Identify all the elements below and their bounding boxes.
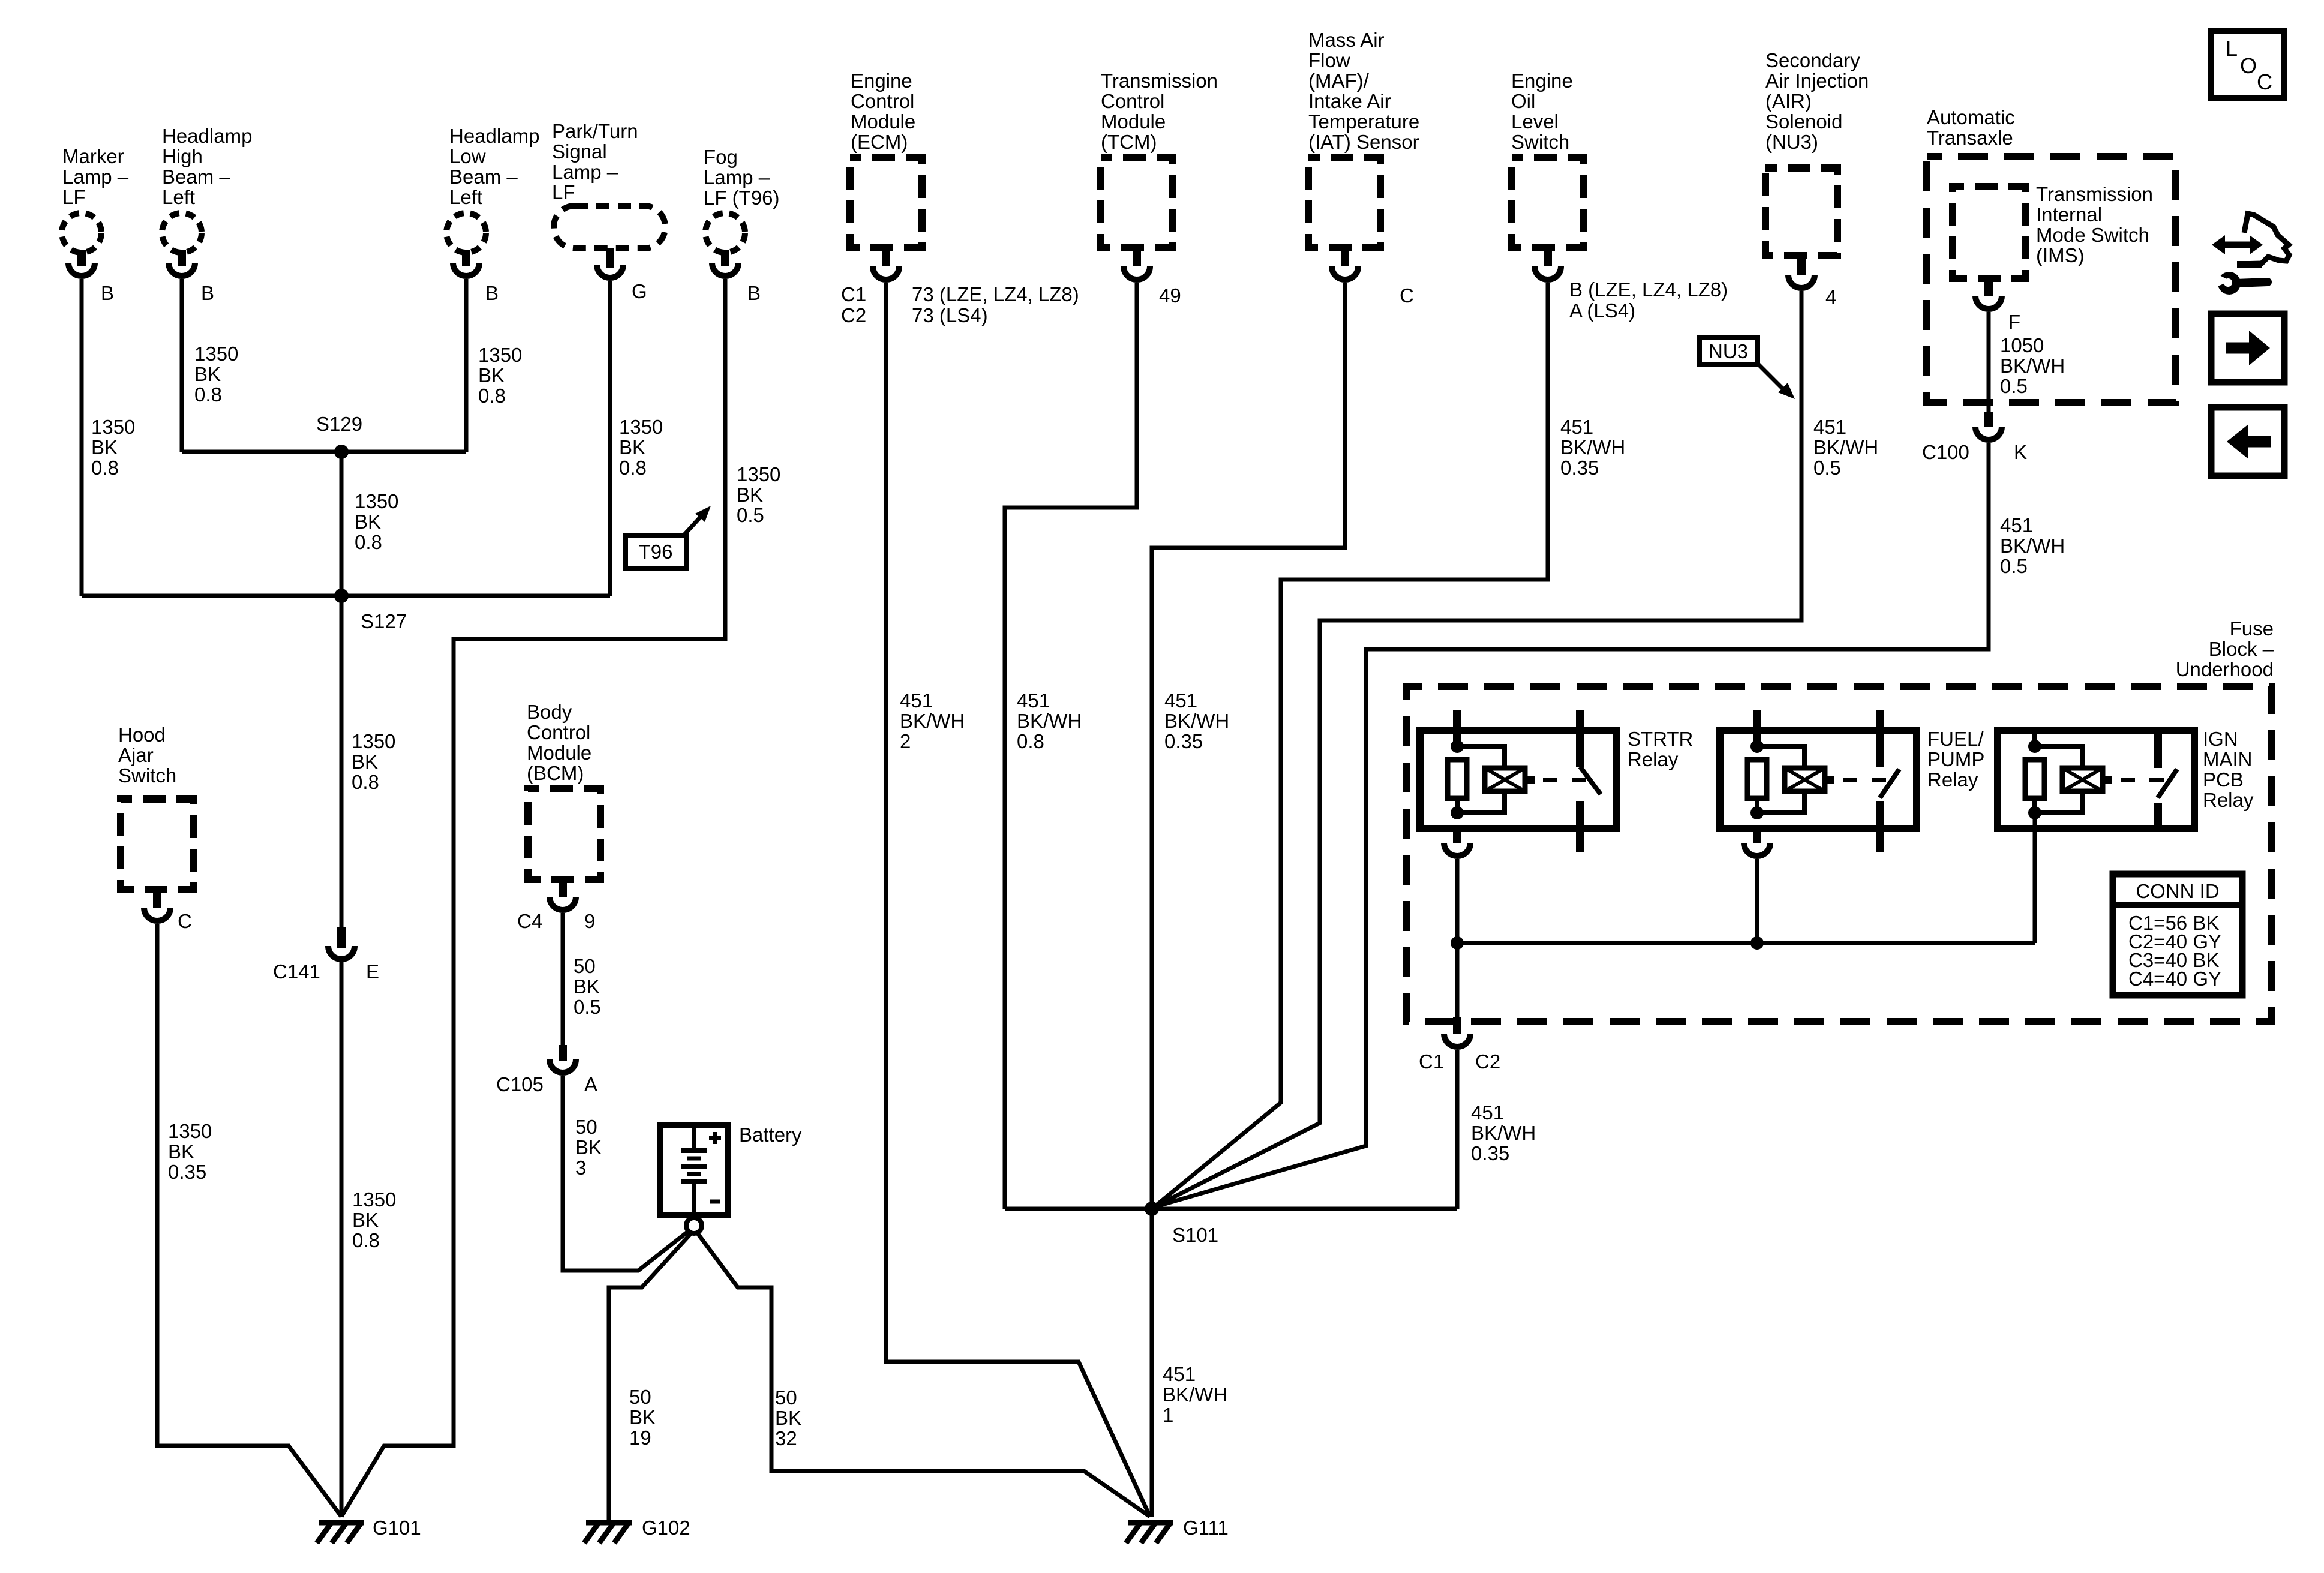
svg-text:LF: LF <box>62 186 86 208</box>
svg-text:C100: C100 <box>1922 441 1969 463</box>
svg-text:Temperature: Temperature <box>1308 110 1419 133</box>
svg-text:49: 49 <box>1159 284 1181 307</box>
svg-text:Ajar: Ajar <box>118 744 154 766</box>
svg-text:BK/WH: BK/WH <box>1813 436 1878 458</box>
svg-text:F: F <box>2008 311 2020 333</box>
svg-text:1350: 1350 <box>478 344 522 366</box>
wire label 1350 BK 0.5 (fog) <box>737 463 780 526</box>
svg-text:Module: Module <box>851 110 915 133</box>
svg-text:BK: BK <box>352 751 378 773</box>
marker lamp LF (lamp symbol, label, pin B) <box>62 145 129 304</box>
wire oil switch down, left, down to S101 <box>1154 283 1548 1207</box>
svg-text:STRTR: STRTR <box>1628 728 1693 750</box>
svg-text:Headlamp: Headlamp <box>449 125 539 147</box>
ground G111 (symbol and label) <box>1126 1517 1229 1543</box>
svg-text:CONN ID: CONN ID <box>2136 880 2219 902</box>
hood ajar switch (dashed box, label, pin C) <box>118 724 194 932</box>
wire S129 to S127 <box>340 452 344 596</box>
connector C100 pin K <box>1922 412 2027 463</box>
svg-text:G102: G102 <box>642 1517 690 1539</box>
svg-text:Module: Module <box>1101 110 1166 133</box>
battery negative terminal circle <box>686 1218 702 1233</box>
svg-text:BK/WH: BK/WH <box>1163 1383 1227 1406</box>
wire label 451 BK/WH 0.5 (C100) <box>2000 514 2065 577</box>
wire ECM 73 down to G111 <box>886 283 1150 1517</box>
wire MAF C down to S101 and on to G111 <box>1152 283 1345 1517</box>
svg-text:A: A <box>584 1073 597 1095</box>
svg-text:G: G <box>632 280 647 302</box>
svg-text:0.35: 0.35 <box>1164 730 1203 752</box>
svg-text:0.5: 0.5 <box>2000 375 2028 397</box>
wire label 50 BK 19 <box>629 1386 656 1449</box>
svg-text:BK/WH: BK/WH <box>1471 1122 1536 1144</box>
svg-text:0.8: 0.8 <box>1017 730 1044 752</box>
IGN MAIN PCB relay (box, coil, resistor, switch) <box>1998 728 2254 943</box>
wire label 1350 BK 0.8 (marker) <box>91 416 135 479</box>
svg-text:451: 451 <box>2000 514 2033 536</box>
svg-text:0.5: 0.5 <box>574 996 601 1018</box>
svg-text:0.35: 0.35 <box>1471 1142 1509 1164</box>
svg-text:0.5: 0.5 <box>1813 457 1841 479</box>
wire BCM 9 down to C105 <box>561 913 565 1045</box>
svg-text:4: 4 <box>1825 286 1836 308</box>
svg-text:PUMP: PUMP <box>1927 748 1984 770</box>
svg-text:1050: 1050 <box>2000 334 2044 356</box>
svg-text:BK: BK <box>194 363 221 385</box>
svg-text:Engine: Engine <box>1511 70 1573 92</box>
wire label 50 BK 3 <box>575 1116 602 1179</box>
headlamp high beam left (lamp symbol, label, pin B) <box>162 125 252 304</box>
connector C141 pin E <box>273 927 379 983</box>
svg-text:BK: BK <box>737 484 763 506</box>
svg-text:BK/WH: BK/WH <box>2000 355 2065 377</box>
svg-text:BK: BK <box>575 1136 602 1158</box>
svg-text:Transmission: Transmission <box>1101 70 1218 92</box>
svg-text:Fog: Fog <box>704 146 738 168</box>
svg-text:LF: LF <box>552 181 575 203</box>
svg-text:FUEL/: FUEL/ <box>1927 728 1984 750</box>
NU3 callout box with arrow <box>1700 338 1795 399</box>
svg-text:C1: C1 <box>1419 1050 1444 1073</box>
svg-text:(IMS): (IMS) <box>2036 244 2085 266</box>
svg-text:C4=40 GY: C4=40 GY <box>2128 968 2221 990</box>
svg-text:Level: Level <box>1511 110 1559 133</box>
wire label 451 BK/WH 0.8 <box>1017 689 1082 752</box>
wire fog lamp B down, left, down to G101 <box>341 279 725 1517</box>
svg-text:L: L <box>2226 36 2238 61</box>
svg-text:BK: BK <box>168 1140 194 1163</box>
FUEL/PUMP relay (box, coil, resistor, switch, connector) <box>1720 710 1984 943</box>
wire S101 down to G111 label 451 BK/WH 1 <box>1163 1363 1227 1426</box>
ground G101 (symbol and label) <box>317 1517 421 1543</box>
svg-text:Mass Air: Mass Air <box>1308 29 1385 51</box>
svg-text:S101: S101 <box>1172 1224 1218 1246</box>
TCM pin label 49 <box>1159 284 1181 307</box>
svg-text:1350: 1350 <box>352 730 395 752</box>
wire label 1350 BK 0.8 (low beam) <box>478 344 522 407</box>
svg-text:BK/WH: BK/WH <box>2000 535 2065 557</box>
svg-text:High: High <box>162 145 203 167</box>
LOC legend box <box>2211 31 2284 98</box>
svg-text:50: 50 <box>574 955 596 977</box>
svg-text:Signal: Signal <box>552 140 607 163</box>
wire C1/C2 down to S101 <box>1455 1050 1460 1209</box>
wire hood ajar C down to G101 <box>157 924 341 1517</box>
svg-text:BK: BK <box>619 436 645 458</box>
junction S129 (dot and label) <box>182 413 466 459</box>
svg-text:(IAT) Sensor: (IAT) Sensor <box>1308 131 1419 153</box>
wire label 1050 BK/WH 0.5 <box>2000 334 2065 397</box>
svg-text:0.8: 0.8 <box>352 771 379 793</box>
svg-text:451: 451 <box>1164 689 1197 712</box>
svg-text:O: O <box>2240 53 2257 78</box>
svg-text:Engine: Engine <box>851 70 912 92</box>
svg-text:Relay: Relay <box>1927 769 1978 791</box>
svg-text:C4: C4 <box>517 910 542 932</box>
svg-text:0.35: 0.35 <box>168 1161 206 1183</box>
svg-text:Marker: Marker <box>62 145 124 167</box>
svg-text:73 (LS4): 73 (LS4) <box>912 304 988 326</box>
svg-text:C: C <box>1400 284 1414 307</box>
wire C100 K down, left, down to S101 <box>1154 443 1989 1207</box>
svg-text:Lamp –: Lamp – <box>62 166 129 188</box>
wire IMS F down to C100 <box>1987 312 1991 412</box>
left arrow legend box <box>2211 407 2284 476</box>
connector C105 pin A <box>496 1045 597 1095</box>
svg-text:2: 2 <box>900 730 911 752</box>
svg-text:C2: C2 <box>1475 1050 1500 1073</box>
svg-text:19: 19 <box>629 1427 651 1449</box>
svg-text:BK: BK <box>629 1406 656 1428</box>
svg-text:Switch: Switch <box>118 764 176 786</box>
svg-text:Relay: Relay <box>2203 789 2254 811</box>
svg-text:(BCM): (BCM) <box>527 762 584 784</box>
svg-text:E: E <box>366 960 379 983</box>
wire bus down to connector C1/C2 <box>1455 943 1460 1017</box>
svg-text:Body: Body <box>527 701 572 723</box>
svg-text:(TCM): (TCM) <box>1101 131 1157 153</box>
wire S127 down to C141 <box>340 596 344 927</box>
fuse block underhood (dashed box and label) <box>1407 617 2274 1022</box>
transmission control module TCM (dashed box, label) <box>1101 70 1218 280</box>
svg-text:451: 451 <box>900 689 933 712</box>
svg-text:Flow: Flow <box>1308 49 1350 71</box>
svg-text:MAIN: MAIN <box>2203 748 2253 770</box>
svg-text:451: 451 <box>1471 1101 1504 1124</box>
park/turn signal lamp LF (stadium symbol, label, pin G) <box>552 120 665 302</box>
wire label 1350 BK 0.8 (park/turn) <box>619 416 663 479</box>
svg-text:Secondary: Secondary <box>1765 49 1860 71</box>
svg-text:Beam –: Beam – <box>449 166 518 188</box>
headlamp low beam left (lamp symbol, label, pin B) <box>446 125 539 304</box>
AIR solenoid pin label 4 <box>1825 286 1836 308</box>
svg-text:451: 451 <box>1813 416 1846 438</box>
svg-text:BK/WH: BK/WH <box>1560 436 1625 458</box>
svg-text:C141: C141 <box>273 960 320 983</box>
svg-text:B: B <box>101 282 114 304</box>
wire label 50 BK 32 <box>775 1386 801 1449</box>
svg-text:1350: 1350 <box>194 343 238 365</box>
svg-text:B: B <box>747 282 761 304</box>
STRTR relay (box, coil, resistor, switch, connector) <box>1420 710 1693 943</box>
svg-text:(NU3): (NU3) <box>1765 131 1818 153</box>
ground G102 (symbol and label) <box>584 1517 690 1543</box>
battery (box, plates, + and - marks, label) <box>660 1124 802 1218</box>
svg-text:Mode Switch: Mode Switch <box>2036 224 2149 246</box>
MAF pin label C <box>1400 284 1414 307</box>
svg-text:Headlamp: Headlamp <box>162 125 252 147</box>
svg-text:BK: BK <box>574 975 600 998</box>
svg-text:G101: G101 <box>373 1517 421 1539</box>
wire marker lamp B to S127 horizontal <box>80 279 84 596</box>
svg-text:0.8: 0.8 <box>194 383 222 406</box>
svg-text:Intake Air: Intake Air <box>1308 90 1391 112</box>
engine control module ECM (dashed box, label) <box>850 70 922 280</box>
right arrow legend box <box>2211 314 2284 382</box>
svg-text:BK: BK <box>355 511 381 533</box>
svg-text:0.5: 0.5 <box>737 504 764 526</box>
svg-text:73 (LZE, LZ4, LZ8): 73 (LZE, LZ4, LZ8) <box>912 283 1079 305</box>
wire label 1350 BK 0.8 (high beam) <box>194 343 238 406</box>
connector C1/C2 at fuse block <box>1419 1017 1500 1073</box>
wire AIR solenoid 4 down, left, down to S101 <box>1154 291 1801 1207</box>
wire label 50 BK 0.5 <box>574 955 601 1018</box>
svg-text:1: 1 <box>1163 1404 1173 1426</box>
svg-text:NU3: NU3 <box>1709 340 1748 362</box>
svg-text:(MAF)/: (MAF)/ <box>1308 70 1370 92</box>
body control module BCM (dashed box, label, connector C4 pin 9) <box>517 701 600 932</box>
wire label 451 BK/WH 0.35 (oil switch) <box>1560 416 1625 479</box>
wire label 1350 BK 0.35 (hood ajar) <box>168 1120 212 1183</box>
svg-text:0.8: 0.8 <box>355 531 382 553</box>
IMS pin label F <box>2008 311 2020 333</box>
svg-text:Control: Control <box>851 90 914 112</box>
svg-text:1350: 1350 <box>355 490 398 512</box>
svg-text:C105: C105 <box>496 1073 544 1095</box>
engine oil level switch (dashed box, label) <box>1511 70 1584 280</box>
svg-text:Oil: Oil <box>1511 90 1535 112</box>
wire label 1350 BK 0.8 (C141-G101) <box>352 1188 396 1251</box>
svg-text:C2: C2 <box>841 304 866 326</box>
svg-text:Lamp –: Lamp – <box>704 166 770 188</box>
wire label 451 BK/WH 2 <box>900 689 965 752</box>
svg-text:(ECM): (ECM) <box>851 131 908 153</box>
wire TCM 49 down to S101 <box>1005 283 1137 1209</box>
svg-text:Beam –: Beam – <box>162 166 230 188</box>
wire park/turn G down to S127 horizontal <box>608 281 612 596</box>
svg-text:Park/Turn: Park/Turn <box>552 120 638 142</box>
svg-text:A (LS4): A (LS4) <box>1569 299 1635 322</box>
svg-text:PCB: PCB <box>2203 769 2244 791</box>
svg-text:1350: 1350 <box>737 463 780 485</box>
svg-text:G111: G111 <box>1183 1517 1229 1539</box>
svg-text:BK: BK <box>775 1407 801 1429</box>
wire label 451 BK/WH 0.5 (AIR) <box>1813 416 1878 479</box>
oil switch pin labels B/A <box>1569 278 1728 322</box>
svg-text:Fuse: Fuse <box>2230 617 2274 640</box>
svg-text:451: 451 <box>1560 416 1593 438</box>
svg-text:B: B <box>485 282 499 304</box>
svg-text:1350: 1350 <box>91 416 135 438</box>
wire C105 A down and right to battery negative <box>563 1076 689 1271</box>
wire C141 E down to G101 <box>340 962 344 1517</box>
svg-text:Lamp –: Lamp – <box>552 161 618 183</box>
svg-text:Left: Left <box>449 186 482 208</box>
svg-text:LF (T96): LF (T96) <box>704 187 780 209</box>
svg-text:S127: S127 <box>361 610 407 632</box>
svg-text:Hood: Hood <box>118 724 166 746</box>
ECM pin labels C1 C2 and 73 <box>841 283 1079 326</box>
svg-text:0.8: 0.8 <box>352 1229 380 1251</box>
secondary air injection AIR solenoid (dashed box, label) <box>1765 49 1869 288</box>
svg-text:32: 32 <box>775 1427 797 1449</box>
svg-text:Module: Module <box>527 742 591 764</box>
wire label 1350 BK 0.8 (S129-S127) <box>355 490 398 553</box>
svg-text:0.8: 0.8 <box>91 457 119 479</box>
svg-text:1350: 1350 <box>619 416 663 438</box>
svg-text:B (LZE, LZ4, LZ8): B (LZE, LZ4, LZ8) <box>1569 278 1728 301</box>
svg-text:Transaxle: Transaxle <box>1927 127 2013 149</box>
fuse block internal ground bus with junction dots <box>1451 936 2035 950</box>
svg-text:1350: 1350 <box>352 1188 396 1211</box>
svg-text:50: 50 <box>775 1386 797 1409</box>
svg-text:Solenoid: Solenoid <box>1765 110 1842 133</box>
svg-text:0.8: 0.8 <box>619 457 647 479</box>
svg-text:C: C <box>178 910 192 932</box>
svg-text:T96: T96 <box>639 541 673 563</box>
svg-text:C1: C1 <box>841 283 866 305</box>
svg-text:S129: S129 <box>316 413 362 435</box>
svg-text:0.5: 0.5 <box>2000 555 2028 577</box>
svg-text:B: B <box>201 282 214 304</box>
svg-text:Automatic: Automatic <box>1927 106 2015 128</box>
svg-text:451: 451 <box>1017 689 1050 712</box>
svg-text:Low: Low <box>449 145 486 167</box>
svg-text:0.35: 0.35 <box>1560 457 1599 479</box>
mass air flow MAF IAT sensor (dashed box, label) <box>1308 29 1419 280</box>
svg-text:IGN: IGN <box>2203 728 2238 750</box>
CONN ID table <box>2113 874 2242 995</box>
wire label 451 BK/WH 0.35 (MAF) <box>1164 689 1229 752</box>
wire low beam B to S129 <box>464 279 469 452</box>
svg-text:0.8: 0.8 <box>478 385 506 407</box>
wire battery negative to G102 <box>609 1233 691 1523</box>
svg-text:Internal: Internal <box>2036 203 2102 226</box>
svg-text:K: K <box>2014 441 2027 463</box>
svg-text:Control: Control <box>1101 90 1164 112</box>
svg-text:Relay: Relay <box>1628 748 1679 770</box>
svg-text:Underhood: Underhood <box>2176 658 2274 680</box>
svg-text:BK/WH: BK/WH <box>1017 710 1082 732</box>
fog lamp LF (lamp symbol, label, pin B) <box>704 146 780 304</box>
svg-text:BK: BK <box>478 364 505 386</box>
svg-text:3: 3 <box>575 1157 586 1179</box>
wire label 451 BK/WH 0.35 (C1/C2) <box>1471 1101 1536 1164</box>
T96 callout box with arrow <box>626 506 711 569</box>
svg-text:(AIR): (AIR) <box>1765 90 1812 112</box>
svg-text:Left: Left <box>162 186 195 208</box>
svg-text:BK/WH: BK/WH <box>900 710 965 732</box>
svg-text:Control: Control <box>527 721 590 743</box>
svg-text:Block –: Block – <box>2209 638 2274 660</box>
automatic transaxle (dashed box, label) <box>1927 106 2176 403</box>
svg-text:C: C <box>2257 70 2272 94</box>
vehicle with wrench icon <box>2212 214 2289 295</box>
svg-text:50: 50 <box>629 1386 651 1408</box>
wire label 1350 BK 0.8 (S127-C141) <box>352 730 395 793</box>
svg-text:BK: BK <box>91 436 118 458</box>
svg-text:BK: BK <box>352 1209 379 1231</box>
wire battery negative to G111 (50 BK 32) <box>698 1233 1150 1517</box>
svg-text:9: 9 <box>584 910 595 932</box>
svg-text:451: 451 <box>1163 1363 1196 1385</box>
svg-text:1350: 1350 <box>168 1120 212 1142</box>
junction S101 (horizontal, dot and label) <box>1005 1202 1457 1246</box>
svg-text:BK/WH: BK/WH <box>1164 710 1229 732</box>
svg-text:Switch: Switch <box>1511 131 1569 153</box>
wire high beam B to S129 <box>180 279 184 452</box>
svg-text:Air Injection: Air Injection <box>1765 70 1869 92</box>
svg-text:Battery: Battery <box>739 1124 802 1146</box>
svg-text:50: 50 <box>575 1116 597 1138</box>
junction S127 (horizontal, dot and label) <box>82 589 610 632</box>
transmission internal mode switch IMS (dashed box, label) <box>1953 183 2153 309</box>
svg-text:Transmission: Transmission <box>2036 183 2153 205</box>
